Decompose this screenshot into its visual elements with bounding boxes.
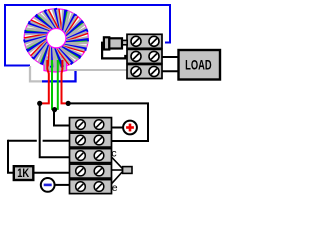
transistor Q1 (111, 147, 132, 194)
svg-text:LOAD: LOAD (185, 57, 212, 73)
svg-text:c: c (111, 147, 116, 159)
wire black B: center tap down to TB2 row 1 (54, 110, 70, 126)
toroid outer insulation outline (magenta) (24, 9, 88, 67)
junction node B (green center tap) (52, 107, 57, 112)
wire gray from toroid to TB1 row 3 (62, 69, 127, 71)
toroidal transformer T1 (24, 8, 89, 72)
wire gray stub at toroid bottom-left (30, 66, 42, 81)
terminal strip TB1 (3 positions) (127, 34, 162, 78)
resistor R1 1K box (14, 166, 34, 180)
svg-text:e: e (112, 182, 118, 194)
wire black down to resistor R1 left lead (8, 140, 14, 173)
wire black resistor R1 right lead to TB2 row 4 (34, 172, 70, 174)
toroid winding lead neck (44, 57, 67, 72)
battery plus terminal (112, 121, 137, 135)
plug P1 into TB1 row 1 (102, 37, 127, 58)
svg-text:1K: 1K (17, 166, 29, 180)
LOAD box (179, 50, 221, 80)
wire red winding lead 1 (left) (41, 60, 49, 103)
wire black TB2 row2 left to resistor (hops over wire A) (43, 140, 70, 142)
junction node A (left red to black) (37, 101, 42, 106)
wire TB1 row3 to LOAD (162, 70, 179, 72)
battery minus terminal (41, 178, 70, 192)
wire blue loop: toroid winding end routed around the left/top to terminal strip TB1 (5, 5, 170, 66)
wire blue under toroid (42, 71, 76, 81)
wire black C: node C right, down, to TB2 row 2 right side (68, 103, 148, 141)
terminal strip TB2 (5 positions) (70, 118, 112, 194)
wire green center-tap lead (hairpin) (52, 60, 58, 109)
wire black A: node A down to TB2 row 3 (40, 103, 70, 157)
wire TB1 row2 to LOAD (162, 56, 179, 58)
junction node C (right red to black) (66, 101, 71, 106)
wire red winding lead 2 (right) (62, 60, 69, 103)
toroid core hole (47, 29, 66, 48)
